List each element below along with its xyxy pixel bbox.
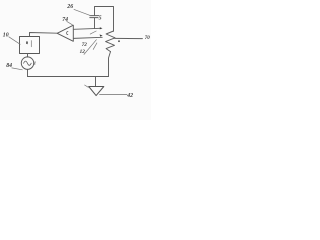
svg-text:1: 1 (34, 60, 36, 65)
arrowhead upper input (100, 27, 103, 29)
capacitor 26 top lead and top wire to resistor (95, 7, 114, 32)
junction arrow (90, 31, 96, 34)
ground stub (95, 77, 97, 87)
bottom wire (28, 76, 109, 78)
mark inside box (26, 41, 28, 44)
leader 84 (12, 68, 22, 70)
svg-text:42: 42 (126, 93, 133, 99)
svg-text:10: 10 (3, 32, 9, 38)
capacitor plates (90, 15, 99, 17)
wire box bottom to source (27, 54, 29, 58)
leader 12 (93, 43, 97, 50)
box 10 (network block) (20, 37, 40, 54)
AC source 84 (21, 57, 33, 69)
leader 26 (74, 9, 91, 15)
lower input line (73, 37, 102, 38)
output line to 70 (115, 37, 143, 39)
svg-text:12: 12 (80, 49, 86, 55)
leader 74 (67, 21, 73, 24)
capacitor bottom lead (94, 18, 96, 29)
leader 72 (84, 40, 96, 55)
leader 10 (9, 37, 20, 45)
ground symbol (89, 87, 104, 96)
leader 42 (100, 94, 128, 96)
ground tick (85, 85, 89, 87)
op-amp U (left pointing) (57, 25, 73, 41)
svg-text:70: 70 (145, 36, 151, 41)
svg-text:84: 84 (6, 63, 12, 69)
svg-text:72: 72 (82, 42, 88, 48)
sine wave (24, 61, 32, 65)
upper input line (73, 28, 100, 29)
junction dot on output line (118, 40, 120, 42)
arrowhead lower input (100, 34, 103, 36)
riser to resistor bottom (109, 52, 111, 77)
svg-text:74: 74 (62, 17, 68, 23)
svg-text:26: 26 (66, 4, 73, 10)
wire box top to op-amp apex (30, 33, 58, 37)
resistor 28 zigzag (106, 31, 115, 52)
mark inside op-amp (67, 32, 68, 35)
wire source bottom (27, 69, 29, 76)
svg-text:5: 5 (99, 15, 102, 21)
